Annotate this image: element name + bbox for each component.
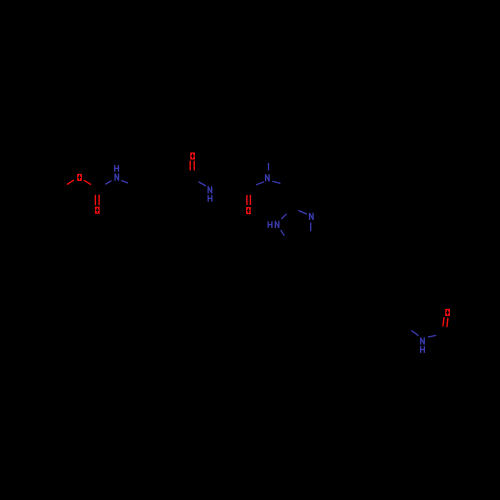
atom N5 (ring nitrogen) <box>309 213 314 220</box>
atom N1 (carbamate nitrogen) <box>114 173 119 180</box>
double bond C=O5 oxygen halves <box>443 317 448 327</box>
atom O4 (amide-2 carbonyl oxygen) <box>246 207 251 214</box>
bond N4-C2(ring) nitrogen half <box>281 214 286 219</box>
atom N2 (amide-1 nitrogen) <box>208 186 213 193</box>
bond C(amide1)-N2 nitrogen half <box>198 182 206 186</box>
atom O3 (amide-1 carbonyl oxygen) <box>190 152 195 159</box>
atom H on N1 (carbamate NH) <box>114 165 119 172</box>
bond N4-CH2(ring) nitrogen half <box>281 230 285 236</box>
atom H on N4 (ring NH) <box>268 221 273 228</box>
bond C2-N5 nitrogen half <box>298 210 306 214</box>
atom H on N6 <box>420 346 425 353</box>
bond N3-CH3 nitrogen half <box>268 163 270 171</box>
atom H on N2 <box>208 195 213 202</box>
bond N6-C(acetamide) nitrogen half <box>428 335 436 337</box>
bond N1-C(carbamate) nitrogen half <box>105 181 111 185</box>
bond O1-C(tBu) oxygen half <box>67 180 74 185</box>
bond N6-CH2 nitrogen half <box>412 331 419 336</box>
atom N4 (ring NH nitrogen) <box>275 221 280 228</box>
bond N3-C(amide2) nitrogen half <box>256 182 264 185</box>
atom O2 (Boc carbonyl oxygen) <box>95 207 100 214</box>
bond N5-CH2(ring) nitrogen half <box>310 222 312 231</box>
double bond C=O2 oxygen halves <box>95 195 99 205</box>
bond O1-C(carbamate) oxygen half <box>84 180 91 184</box>
atom O5 (acetamide carbonyl oxygen) <box>445 309 450 316</box>
bond N1-CH2 nitrogen half <box>121 180 128 183</box>
double bond C=O4 oxygen halves <box>247 195 251 205</box>
atom N3 (tertiary amide nitrogen) <box>265 174 270 181</box>
double bond C=O3 oxygen halves <box>190 161 194 171</box>
bond N3-CH2(ring) nitrogen half <box>272 181 280 183</box>
atom N6 (acetamide nitrogen) <box>420 337 425 344</box>
atom O1 (Boc ester oxygen) <box>77 174 82 181</box>
